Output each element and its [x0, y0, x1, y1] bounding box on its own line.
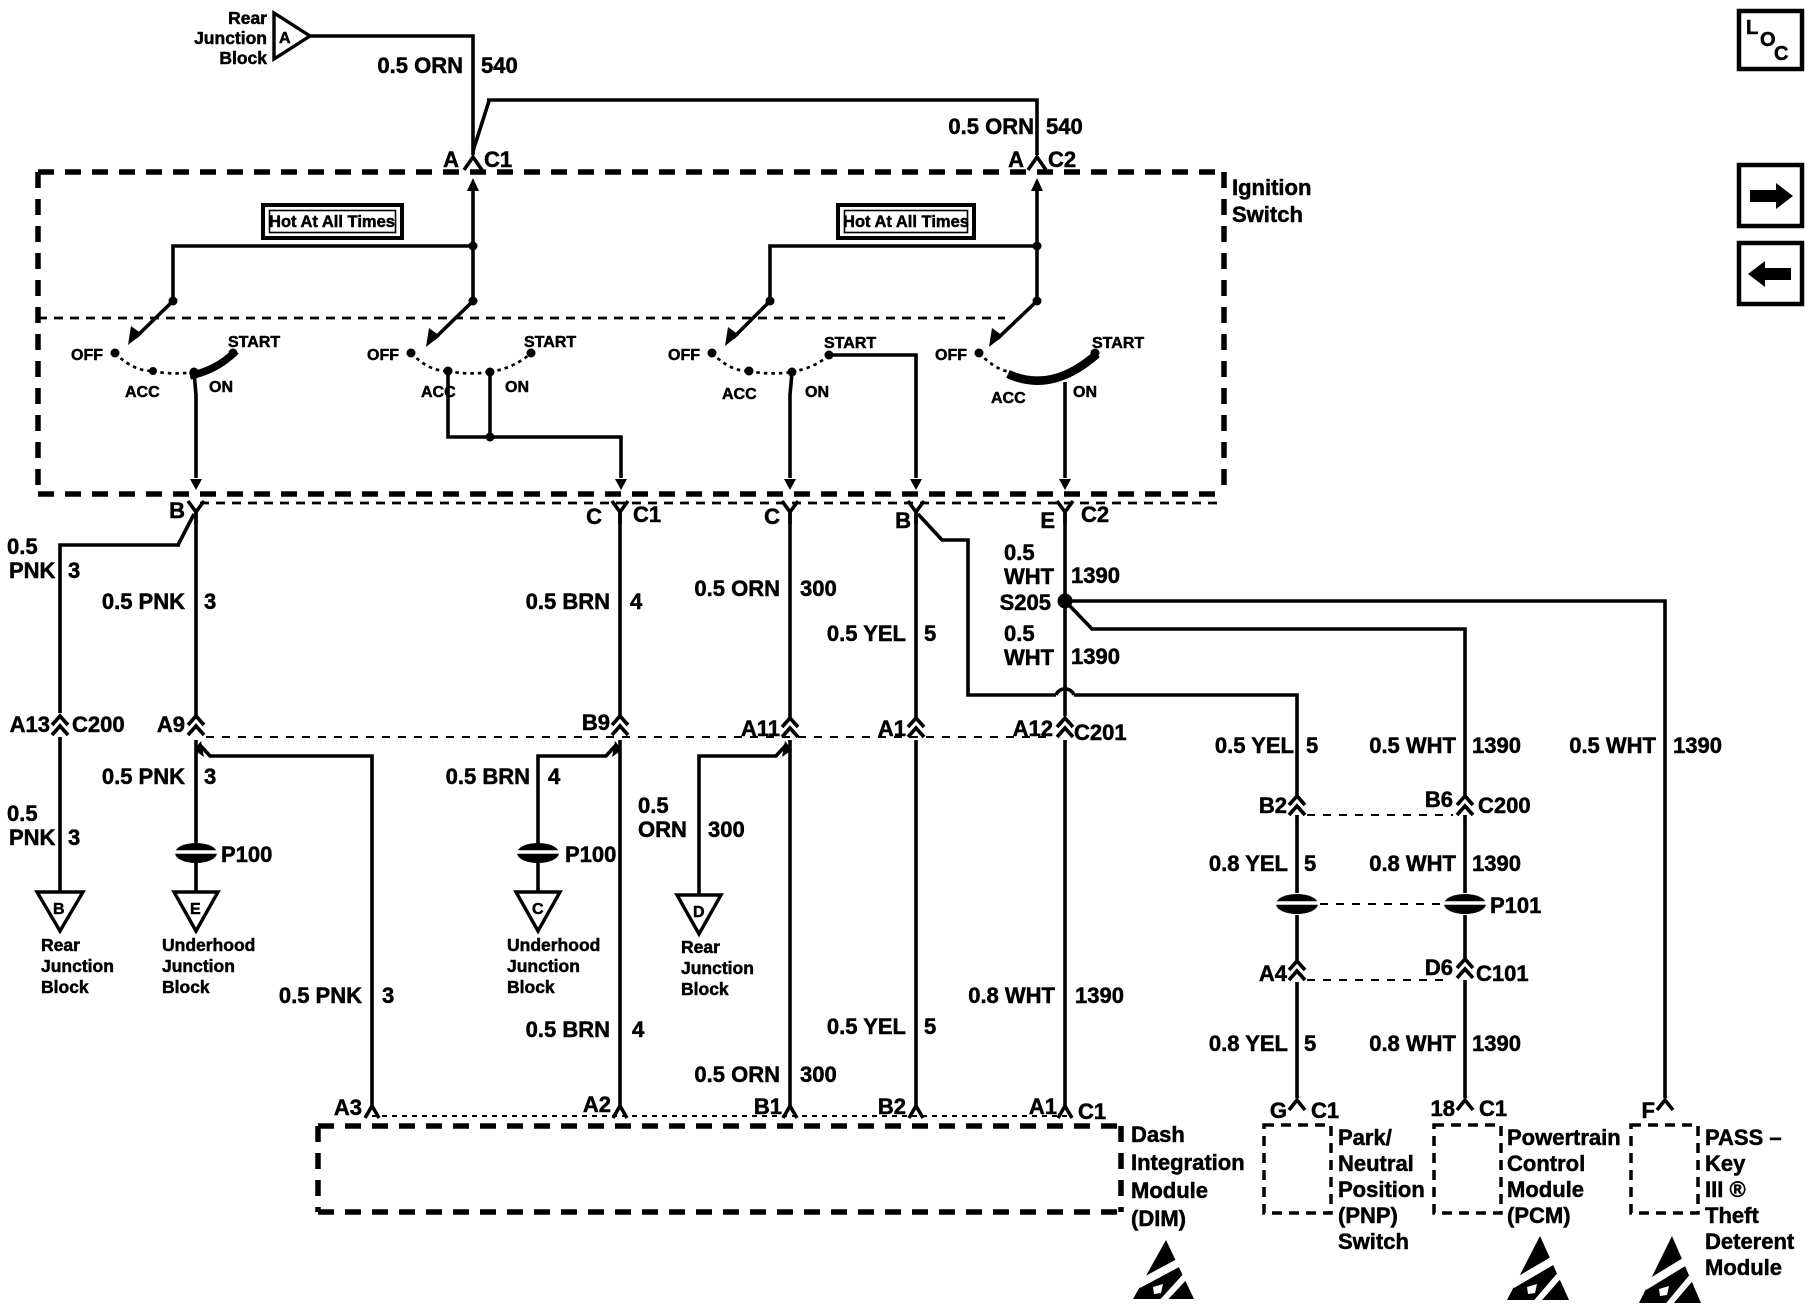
svg-text:ACC: ACC — [722, 386, 757, 403]
svg-text:PASS –: PASS – — [1705, 1125, 1782, 1150]
Hot At All Times box (right) — [838, 205, 974, 238]
pin A C1 connector — [443, 147, 512, 172]
svg-text:5: 5 — [924, 621, 936, 646]
PASS-Key III Theft Deterent Module box — [1631, 1125, 1698, 1213]
svg-text:5: 5 — [1306, 733, 1318, 758]
svg-text:1390: 1390 — [1673, 733, 1722, 758]
value label 0.5 WHT 1390 (far right run) — [1569, 733, 1722, 758]
svg-text:Block: Block — [219, 48, 267, 68]
wire: C1 feed continues down — [471, 246, 475, 301]
svg-text:0.8 YEL: 0.8 YEL — [1209, 1031, 1288, 1056]
value label 0.5 PNK 3 (B drop) — [102, 589, 216, 614]
connector A11 — [741, 716, 798, 741]
ground triangle B: Rear Junction Block — [37, 892, 114, 997]
svg-text:Powertrain: Powertrain — [1507, 1125, 1621, 1150]
value label 0.5 WHT 1390 (upper stack) — [1004, 540, 1120, 589]
svg-text:D6: D6 — [1425, 955, 1453, 980]
grommet P101 (left) — [1272, 894, 1322, 914]
value label 0.5 PNK 3 (A3 drop) — [279, 983, 394, 1008]
svg-text:540: 540 — [481, 53, 518, 78]
value label 0.5 ORN 540 (right) — [948, 114, 1082, 139]
ignition switch section 4 — [935, 335, 1144, 407]
label Park/Neutral Position (PNP) Switch — [1338, 1125, 1425, 1254]
svg-text:5: 5 — [1304, 851, 1316, 876]
dashed line B2 to B6 — [1307, 814, 1453, 816]
svg-text:C101: C101 — [1476, 961, 1529, 986]
svg-text:ACC: ACC — [125, 384, 160, 401]
wiper arrow into switch 1 OFF — [136, 301, 173, 337]
svg-text:0.5 BRN: 0.5 BRN — [526, 589, 610, 614]
svg-text:4: 4 — [548, 764, 561, 789]
pin A3 — [334, 1095, 379, 1120]
wire: pin E down to S205 and A12 — [1063, 512, 1067, 716]
wire: B6 down to P101 — [1463, 815, 1467, 958]
wire: D6 down to 18 — [1463, 980, 1467, 1098]
svg-text:0.5: 0.5 — [7, 801, 38, 826]
value label 0.5 PNK 3 (far left upper) — [7, 534, 80, 583]
pin B2 — [878, 1094, 923, 1119]
svg-text:C1: C1 — [1078, 1099, 1106, 1124]
ground triangle E: Underhood Junction Block — [162, 892, 255, 997]
svg-text:Block: Block — [507, 977, 555, 997]
LOC reference box — [1739, 11, 1802, 69]
svg-text:A: A — [1008, 147, 1024, 172]
pin C C1 connector — [586, 501, 661, 529]
svg-text:0.5 BRN: 0.5 BRN — [446, 764, 530, 789]
value label 0.5 PNK 3 (A9 drop) — [102, 764, 216, 789]
svg-text:B2: B2 — [878, 1094, 906, 1119]
svg-text:P100: P100 — [221, 842, 272, 867]
wire: switch 3 START to pin B — [829, 355, 916, 478]
svg-text:C: C — [764, 504, 780, 529]
wire: branch B to far-left PNK drop — [60, 514, 194, 713]
dashed line P101 pair — [1320, 903, 1442, 905]
svg-text:3: 3 — [382, 983, 394, 1008]
wire: A9 down through P100 to triangle E — [194, 740, 198, 891]
nav arrow right box — [1739, 165, 1802, 226]
ESD symbol under PCM — [1507, 1236, 1569, 1308]
svg-text:18: 18 — [1431, 1096, 1455, 1121]
svg-text:B: B — [895, 508, 911, 533]
svg-text:START: START — [824, 335, 876, 352]
svg-text:C1: C1 — [1311, 1098, 1339, 1123]
wiper arrow into switch 3 OFF — [733, 301, 770, 338]
wire: C1 entry into switch with up arrow — [471, 190, 475, 246]
svg-text:A4: A4 — [1259, 961, 1288, 986]
value label 0.8 WHT 1390 (mid) — [1369, 851, 1521, 876]
svg-text:Neutral: Neutral — [1338, 1151, 1414, 1176]
pin C connector (C2-C) — [764, 501, 798, 529]
svg-text:(DIM): (DIM) — [1131, 1206, 1186, 1231]
label Ignition Switch — [1232, 175, 1311, 227]
svg-text:0.5 BRN: 0.5 BRN — [526, 1017, 610, 1042]
value label 0.5 ORN 300 (upper) — [694, 576, 836, 601]
svg-text:Hot At All Times: Hot At All Times — [843, 213, 969, 231]
svg-text:1390: 1390 — [1071, 563, 1120, 588]
svg-text:A13: A13 — [10, 712, 50, 737]
svg-text:0.5 ORN: 0.5 ORN — [694, 1062, 780, 1087]
svg-text:E: E — [1040, 508, 1055, 533]
wire: C2 feed continues down — [1035, 246, 1039, 301]
value label 0.5 ORN 300 (A11 drop stack) — [638, 793, 745, 842]
wire: A12 down to A1 C1 — [1063, 740, 1067, 1108]
svg-text:OFF: OFF — [71, 347, 103, 364]
svg-text:C2: C2 — [1048, 147, 1076, 172]
wire: S205 to far right WHT drop — [1065, 601, 1665, 1098]
DIM pin connectors strip — [372, 1115, 1071, 1117]
value label 0.5 ORN 540 (left) — [377, 53, 517, 78]
svg-text:A2: A2 — [583, 1092, 611, 1117]
value label 0.5 WHT 1390 (lower stack) — [1004, 621, 1120, 670]
svg-text:START: START — [524, 334, 576, 351]
svg-text:Key: Key — [1705, 1151, 1746, 1176]
value label 0.5 PNK 3 (far left lower) — [7, 801, 80, 850]
pin G C1 (PNP switch) — [1270, 1098, 1339, 1123]
Powertrain Control Module box — [1434, 1125, 1501, 1213]
svg-text:C1: C1 — [1479, 1096, 1507, 1121]
value label 0.8 WHT 1390 (A1 drop) — [968, 983, 1124, 1008]
ignition switch section 3 — [668, 335, 876, 403]
svg-text:Park/: Park/ — [1338, 1125, 1392, 1150]
svg-text:0.8 WHT: 0.8 WHT — [1369, 851, 1456, 876]
svg-text:5: 5 — [924, 1014, 936, 1039]
wire: A11 down to B1 — [788, 740, 792, 1108]
svg-text:Junction: Junction — [194, 28, 267, 48]
svg-text:B9: B9 — [582, 710, 610, 735]
connector A1 — [878, 716, 924, 741]
pin E C2 connector — [1040, 501, 1109, 533]
value label 0.5 ORN 300 (B1 drop) — [694, 1062, 836, 1087]
svg-text:0.5 YEL: 0.5 YEL — [827, 1014, 906, 1039]
pin 18 C1 (PCM) — [1431, 1096, 1508, 1121]
wire: switch 2 ACC and ON tied to pin C1 — [448, 371, 621, 478]
svg-text:D: D — [693, 904, 705, 921]
pin A C2 connector — [1008, 147, 1076, 172]
svg-text:0.5: 0.5 — [1004, 621, 1035, 646]
svg-text:Block: Block — [681, 979, 729, 999]
svg-text:B6: B6 — [1425, 787, 1453, 812]
svg-text:ORN: ORN — [638, 817, 687, 842]
label PASS-Key III Theft Deterent Module — [1705, 1125, 1795, 1280]
wire: switch 3 ON to pin C — [790, 372, 792, 478]
splice S205 — [1000, 590, 1073, 615]
wire: pin B down to A1 — [914, 512, 918, 718]
svg-text:Rear: Rear — [228, 8, 267, 28]
nav arrow left box — [1739, 243, 1802, 304]
wire: switch 1 ON to pin B — [194, 372, 196, 478]
svg-text:ON: ON — [505, 379, 529, 396]
svg-text:Integration: Integration — [1131, 1150, 1245, 1175]
svg-text:OFF: OFF — [935, 347, 967, 364]
node A: Rear Junction Block feed triangle — [194, 8, 310, 68]
svg-text:3: 3 — [68, 825, 80, 850]
svg-text:P100: P100 — [565, 842, 616, 867]
svg-text:0.5 ORN: 0.5 ORN — [694, 576, 780, 601]
grommet P100 (left) — [171, 842, 272, 867]
ignition switch section 1 — [71, 334, 280, 401]
svg-text:Switch: Switch — [1338, 1229, 1409, 1254]
svg-text:WHT: WHT — [1004, 564, 1055, 589]
svg-text:Module: Module — [1507, 1177, 1584, 1202]
value label 0.5 BRN 4 (upper) — [526, 589, 643, 614]
svg-text:0.5: 0.5 — [7, 534, 38, 559]
svg-text:300: 300 — [800, 576, 837, 601]
svg-text:(PCM): (PCM) — [1507, 1203, 1571, 1228]
svg-text:B1: B1 — [754, 1094, 782, 1119]
ignition switch dashed box — [38, 172, 1224, 494]
wire: branch to C2 across the top — [473, 100, 1037, 155]
svg-text:L: L — [1746, 17, 1758, 39]
pin F (PASS-Key) — [1642, 1098, 1673, 1123]
svg-text:Theft: Theft — [1705, 1203, 1759, 1228]
svg-text:(PNP): (PNP) — [1338, 1203, 1398, 1228]
svg-text:1390: 1390 — [1472, 851, 1521, 876]
svg-text:0.5 ORN: 0.5 ORN — [377, 53, 463, 78]
connector B9 — [582, 710, 628, 735]
svg-text:A1: A1 — [1029, 1094, 1057, 1119]
dashed line A4 to D6 — [1307, 979, 1450, 981]
svg-text:0.5 PNK: 0.5 PNK — [102, 589, 185, 614]
svg-text:0.5 WHT: 0.5 WHT — [1369, 733, 1456, 758]
svg-text:Junction: Junction — [41, 956, 114, 976]
value label 0.5 BRN 4 (A2 drop) — [526, 1017, 645, 1042]
connector A4 — [1259, 961, 1305, 986]
wire: A4 down to G — [1295, 982, 1299, 1098]
svg-text:0.5 WHT: 0.5 WHT — [1569, 733, 1656, 758]
svg-text:Deterent: Deterent — [1705, 1229, 1795, 1254]
value label 0.8 YEL 5 (bottom) — [1209, 1031, 1316, 1056]
svg-text:START: START — [228, 334, 280, 351]
connector B2 — [1259, 793, 1305, 818]
connector A12 C201 — [1013, 716, 1127, 745]
svg-text:Dash: Dash — [1131, 1122, 1185, 1147]
svg-text:Junction: Junction — [681, 958, 754, 978]
svg-text:C1: C1 — [484, 147, 512, 172]
Hot At All Times box (left) — [263, 205, 402, 238]
label Powertrain Control Module (PCM) — [1507, 1125, 1621, 1228]
svg-text:0.8 WHT: 0.8 WHT — [1369, 1031, 1456, 1056]
thin connector strip line below ignition box — [200, 502, 1224, 505]
wiper arrow into switch 4 OFF — [997, 301, 1037, 339]
connector D6 C101 — [1425, 955, 1529, 986]
svg-text:Control: Control — [1507, 1151, 1585, 1176]
wire: B2 down to P101 — [1295, 815, 1299, 960]
svg-text:WHT: WHT — [1004, 645, 1055, 670]
connector B6 C200 — [1425, 787, 1531, 818]
connector A9 — [157, 712, 204, 737]
label Dash Integration Module (DIM) — [1131, 1122, 1245, 1231]
svg-text:PNK: PNK — [9, 825, 56, 850]
value label 0.8 WHT 1390 (bottom) — [1369, 1031, 1521, 1056]
svg-text:0.5: 0.5 — [1004, 540, 1035, 565]
svg-text:B: B — [169, 498, 185, 523]
svg-text:A12: A12 — [1013, 716, 1053, 741]
wire: S205 to middle WHT drop — [1068, 604, 1465, 797]
pin A2 — [583, 1092, 627, 1118]
svg-text:1390: 1390 — [1075, 983, 1124, 1008]
svg-text:ACC: ACC — [421, 384, 456, 401]
svg-text:P101: P101 — [1490, 893, 1541, 918]
svg-text:A: A — [443, 147, 459, 172]
svg-text:1390: 1390 — [1071, 644, 1120, 669]
svg-text:0.8 WHT: 0.8 WHT — [968, 983, 1055, 1008]
svg-text:0.5 YEL: 0.5 YEL — [1215, 733, 1294, 758]
svg-text:Ignition: Ignition — [1232, 175, 1311, 200]
pin A1 C1 — [1029, 1094, 1106, 1124]
wire: pin C down to A11 — [788, 512, 792, 718]
svg-text:C200: C200 — [72, 712, 125, 737]
svg-text:0.5 YEL: 0.5 YEL — [827, 621, 906, 646]
connector C200 row: A13 — [10, 712, 125, 737]
svg-text:E: E — [190, 901, 201, 918]
svg-text:A11: A11 — [741, 716, 780, 741]
svg-text:4: 4 — [632, 1017, 645, 1042]
svg-text:B: B — [53, 901, 65, 918]
svg-text:0.5 ORN: 0.5 ORN — [948, 114, 1034, 139]
pin B1 — [754, 1094, 797, 1119]
value label 0.8 YEL 5 (mid) — [1209, 851, 1316, 876]
svg-text:1390: 1390 — [1472, 1031, 1521, 1056]
svg-text:Module: Module — [1131, 1178, 1208, 1203]
wire: switch 4 ON to pin E — [1063, 382, 1067, 478]
mechanical linkage dashed line — [38, 317, 1005, 320]
svg-text:C2: C2 — [1081, 502, 1109, 527]
svg-text:B2: B2 — [1259, 793, 1287, 818]
svg-text:Rear: Rear — [681, 937, 720, 957]
svg-text:C: C — [586, 504, 602, 529]
svg-text:ON: ON — [1073, 384, 1097, 401]
svg-text:Underhood: Underhood — [162, 935, 255, 955]
svg-text:0.5: 0.5 — [638, 793, 669, 818]
Dash Integration Module box — [318, 1126, 1121, 1212]
svg-text:0.5 PNK: 0.5 PNK — [102, 764, 185, 789]
svg-text:Position: Position — [1338, 1177, 1425, 1202]
value label 0.5 YEL 5 (right run) — [1215, 733, 1318, 758]
branch arrow A11 to ORN drop — [699, 744, 787, 894]
grommet P101 (right) — [1440, 893, 1541, 918]
branch arrow A9 to PNK run — [199, 744, 372, 1108]
svg-text:F: F — [1642, 1098, 1655, 1123]
svg-text:A3: A3 — [334, 1095, 362, 1120]
pin B connector (C2-B) — [895, 501, 924, 533]
svg-text:III ®: III ® — [1705, 1177, 1746, 1202]
svg-text:C: C — [532, 901, 544, 918]
svg-text:ACC: ACC — [991, 390, 1026, 407]
wire: A13 down to triangle B — [58, 737, 62, 891]
svg-text:OFF: OFF — [367, 347, 399, 364]
wire: A1 down to B2 — [914, 740, 918, 1108]
svg-text:C200: C200 — [1478, 793, 1531, 818]
svg-text:5: 5 — [1304, 1031, 1316, 1056]
ignition switch section 2 — [367, 334, 576, 401]
svg-text:Block: Block — [41, 977, 89, 997]
value label 0.5 WHT 1390 (middle run) — [1369, 733, 1521, 758]
svg-text:4: 4 — [630, 589, 643, 614]
svg-text:ON: ON — [209, 379, 233, 396]
value label 0.5 YEL 5 (B2 drop) — [827, 1014, 936, 1039]
svg-text:3: 3 — [68, 558, 80, 583]
wire: left feed bus — [173, 246, 473, 301]
Park/Neutral Position switch box — [1264, 1125, 1331, 1213]
svg-text:A9: A9 — [157, 712, 185, 737]
svg-text:ON: ON — [805, 384, 829, 401]
svg-text:Underhood: Underhood — [507, 935, 600, 955]
svg-text:0.5 PNK: 0.5 PNK — [279, 983, 362, 1008]
junction dots on feed buses — [469, 242, 478, 251]
svg-text:Block: Block — [162, 977, 210, 997]
svg-text:300: 300 — [708, 817, 745, 842]
svg-text:1390: 1390 — [1472, 733, 1521, 758]
svg-text:540: 540 — [1046, 114, 1083, 139]
svg-text:OFF: OFF — [668, 347, 700, 364]
svg-text:S205: S205 — [1000, 590, 1051, 615]
svg-text:C201: C201 — [1074, 720, 1127, 745]
value label 0.5 BRN 4 (B9 drop) — [446, 764, 561, 789]
wire: right feed bus — [770, 246, 1037, 301]
grommet P100 (right) — [513, 842, 616, 867]
svg-text:Rear: Rear — [41, 935, 80, 955]
wire: B9 down to A2 — [618, 740, 622, 1108]
wire: triangle A to C1 drop — [310, 36, 473, 155]
svg-text:0.8 YEL: 0.8 YEL — [1209, 851, 1288, 876]
svg-text:C: C — [1774, 43, 1788, 65]
wire: branch B to yellow run with crossover hop — [918, 514, 1297, 797]
branch arrow B9 to BRN drop — [538, 744, 617, 891]
svg-text:3: 3 — [204, 589, 216, 614]
wiper arrow into switch 2 OFF — [434, 301, 473, 339]
ESD symbol under PASS-Key module — [1639, 1236, 1701, 1311]
svg-text:Switch: Switch — [1232, 202, 1303, 227]
pin B connector (ignition C1-B) — [169, 498, 204, 524]
svg-text:A: A — [279, 30, 291, 47]
ground triangle C: Underhood Junction Block — [507, 892, 600, 997]
dashed harness line C201 — [206, 736, 1053, 738]
ground triangle D: Rear Junction Block — [677, 895, 754, 999]
svg-text:PNK: PNK — [9, 558, 56, 583]
ESD symbol under DIM — [1133, 1240, 1194, 1307]
value label 0.5 YEL 5 (upper) — [827, 621, 936, 646]
svg-text:300: 300 — [800, 1062, 837, 1087]
svg-text:Junction: Junction — [507, 956, 580, 976]
wire: C2 entry into switch with up arrow — [1035, 190, 1039, 246]
svg-text:Hot At All Times: Hot At All Times — [269, 213, 395, 231]
svg-text:Junction: Junction — [162, 956, 235, 976]
svg-text:C1: C1 — [633, 502, 661, 527]
svg-text:3: 3 — [204, 764, 216, 789]
wire: pin B down to A9 — [194, 512, 198, 716]
svg-text:START: START — [1092, 335, 1144, 352]
wire: pin C1 down to B9 — [618, 512, 622, 716]
svg-text:Module: Module — [1705, 1255, 1782, 1280]
svg-text:G: G — [1270, 1098, 1287, 1123]
